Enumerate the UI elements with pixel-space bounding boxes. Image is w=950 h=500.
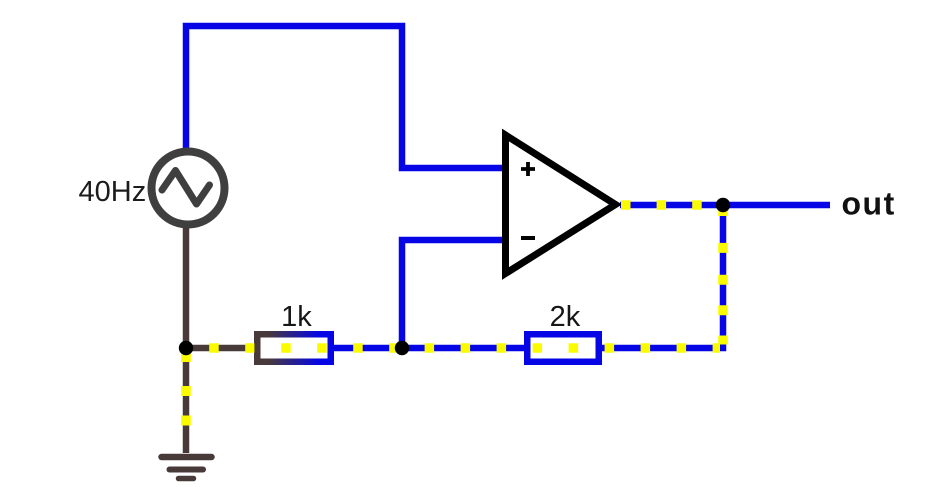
node: output junction [716, 198, 730, 212]
current dashes: op-amp output [621, 200, 702, 210]
resistor R1 1k [257, 334, 331, 362]
ground [162, 457, 212, 479]
wire: ground stub (dark) [183, 348, 190, 453]
svg-text:40Hz: 40Hz [79, 176, 147, 208]
current dashes: feedback vertical [718, 211, 728, 345]
svg-text:1k: 1k [281, 301, 312, 333]
current dashes: ground stub [181, 353, 191, 426]
voltage source V1 circle [152, 152, 225, 225]
op-amp U1 [506, 135, 616, 274]
op-amp minus input marker [521, 236, 535, 240]
node: left junction [179, 341, 193, 355]
wire: source bottom to left node and to 1k resistor (dark) [186, 224, 256, 348]
svg-text:2k: 2k [550, 301, 581, 333]
op-amp plus input marker [521, 162, 535, 176]
current dashes: left rail through 1k [209, 343, 399, 353]
resistor R2 2k [527, 334, 599, 362]
wire: source top to op-amp non-inverting input (blue) [186, 26, 503, 168]
current dashes: middle rail through 2k [425, 343, 720, 353]
svg-text:out: out [842, 186, 896, 222]
wire: 2k to feedback corner and up to output node (blue) [600, 205, 723, 348]
node: middle junction [395, 341, 409, 355]
wire: op-amp inverting input down to middle node (blue) [402, 240, 503, 346]
wire: 1k to 2k rail (blue) [332, 345, 526, 352]
voltage source sine symbol [162, 171, 210, 205]
wire: op-amp output to out terminal (blue) [620, 202, 830, 209]
